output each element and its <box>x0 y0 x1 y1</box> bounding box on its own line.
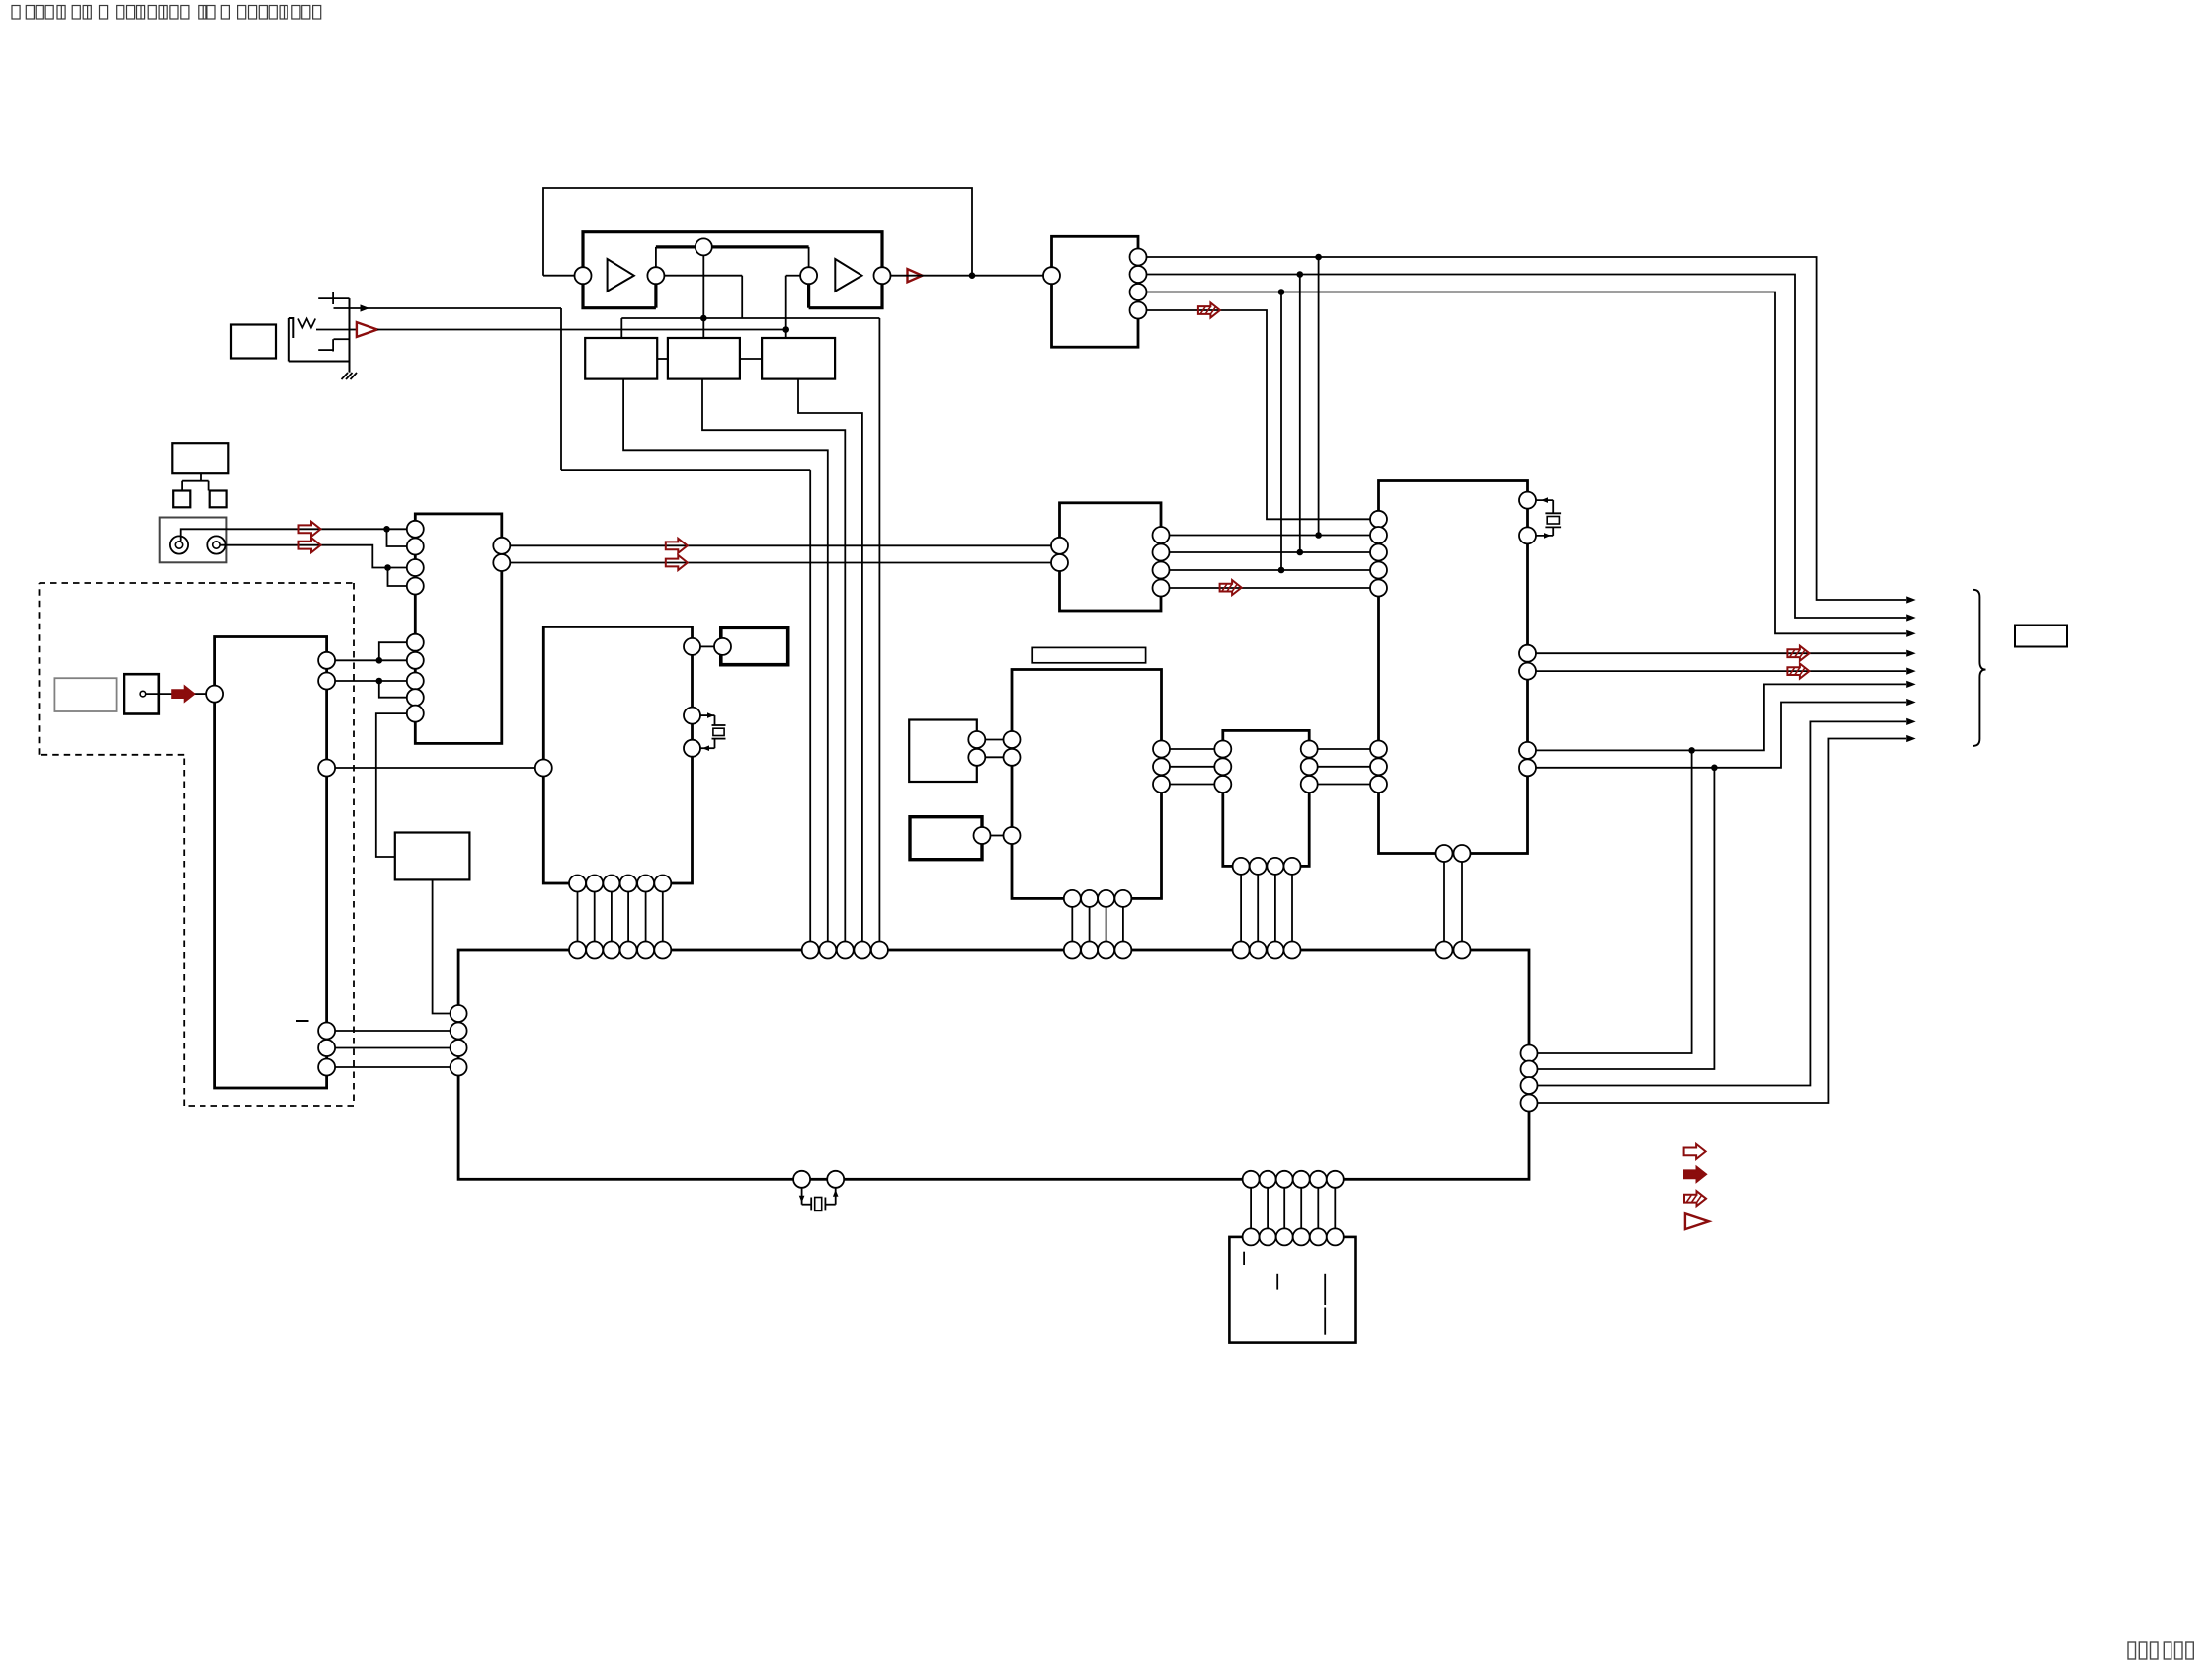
wire: driver to controller 3 <box>1318 784 1370 786</box>
wire: driver bus 4 to main IC <box>1291 875 1293 942</box>
wire: main IC out 4 <box>1538 735 1916 1103</box>
block: display-keys unit <box>1229 1237 1355 1343</box>
wire: headphone audio line B to R-ch amp node <box>377 326 789 333</box>
pins of decoder bottom <box>1064 890 1132 907</box>
label strip (part number) <box>1032 647 1145 662</box>
wire: pickup to RF amp <box>146 693 206 695</box>
wire: center pin to mute box 2 <box>702 255 704 338</box>
wire: display bus 4 <box>1300 1188 1302 1229</box>
pins of controller left upper <box>1370 511 1387 597</box>
wire: DAI out 2 <box>1147 271 1916 621</box>
wire: DSP-RAM link <box>700 645 714 647</box>
block: decoder - servo DSP <box>1012 670 1162 899</box>
dashed enclosure (CD mechanism) <box>40 583 355 1106</box>
wire: main IC out 3 <box>1538 718 1916 1086</box>
pins of main IC top (DSP side) <box>569 942 671 959</box>
mute box 1 <box>585 338 657 379</box>
wire: line L branch <box>387 529 407 546</box>
amplifier block U-amp (thick outline) <box>583 232 882 308</box>
wire: line R to DIR <box>220 538 407 571</box>
wire: servo to main IC 2 <box>335 1047 451 1049</box>
mute box 3 <box>762 338 835 379</box>
wire: decoder to driver 2 <box>1170 766 1214 768</box>
wire: A1 out to mute network <box>664 276 742 318</box>
pins of driver right <box>1301 741 1318 793</box>
wire: display bus 1 <box>1250 1188 1252 1229</box>
block: remote sensor <box>172 443 228 473</box>
wire: DAI tap 2 down <box>1297 275 1304 556</box>
op-amp A2 (right buffer) <box>835 259 861 292</box>
sensor element left <box>173 491 190 508</box>
pins of decoder right <box>1153 741 1170 793</box>
block: digital input receiver (DIR) <box>415 514 502 744</box>
wire: decoder to driver 1 <box>1170 748 1214 750</box>
output label box <box>2015 626 2067 647</box>
wire: M1 to controller 1 <box>1170 535 1371 537</box>
block: pickup label (grey) <box>54 678 116 711</box>
pins of S1 <box>968 731 985 766</box>
wire: display bus 2 <box>1267 1188 1269 1229</box>
wire: servo to main IC 1 <box>335 1030 451 1032</box>
wire: decoder bus 2 to main IC <box>1089 907 1091 942</box>
minus mark <box>296 1020 309 1022</box>
crystal X1 (DSP clock) <box>700 712 726 751</box>
legend: hatched arrow <box>1684 1191 1706 1206</box>
pins of DSP <box>535 638 700 892</box>
wire: servo to main IC 3 <box>335 1066 451 1068</box>
wire: DAI out 1 <box>1147 254 1916 604</box>
pins of driver left <box>1214 741 1231 793</box>
crystal X2 (controller clock) <box>1536 497 1561 538</box>
pins of amplifier block <box>575 238 891 284</box>
wire: controller out 3 <box>1536 681 1916 754</box>
wire: driver bus 1 to main IC <box>1240 875 1242 942</box>
block: peripheral S1 <box>909 720 977 783</box>
pins of main IC top (driver side) <box>1233 942 1301 959</box>
legend: filled arrow <box>1684 1167 1706 1182</box>
headphone label box <box>231 325 276 359</box>
legend: open arrow <box>1684 1144 1706 1159</box>
wire: S1 link a <box>985 739 1003 741</box>
block: line input jacks <box>160 518 227 563</box>
wire: box2 to main IC <box>702 379 845 942</box>
wire: driver to controller 1 <box>1318 748 1370 750</box>
block: peripheral S2 (bold) <box>910 817 982 860</box>
legend: open triangle <box>1685 1213 1709 1229</box>
wire: main IC out 2 <box>1538 768 1715 1069</box>
pin of RAM <box>714 638 731 655</box>
pins of DIR right <box>493 538 510 571</box>
buffer (amp output) <box>908 269 923 282</box>
brace (output connector) <box>1973 590 1986 746</box>
pins of controller right <box>1519 492 1536 777</box>
block: buffer box B2 <box>395 833 470 880</box>
headphone jack J1 (with switch contacts) <box>289 292 357 373</box>
wire: controller out 2 (to outputs) <box>1536 664 1916 679</box>
mute box 2 <box>668 338 740 379</box>
pins of controller bottom <box>1436 845 1471 862</box>
wire: box2-box3 link <box>740 358 762 360</box>
wire: S2 link <box>991 835 1004 837</box>
wire: decoder bus 4 to main IC <box>1122 907 1124 942</box>
wire: controller out 1 (to outputs) <box>1536 646 1916 661</box>
ground <box>342 373 358 379</box>
footer page text (missing-glyph boxes) <box>2128 1642 2193 1659</box>
wire: DIR pin9 loop <box>376 713 407 857</box>
wire: sensor leads <box>182 473 209 490</box>
wire: DSP data 3 to main IC <box>611 892 613 942</box>
wire: headphone top contact to SW input (down at x568) <box>334 304 811 941</box>
block: RAM (bold) <box>721 627 788 664</box>
wire: display bus 5 <box>1317 1188 1319 1229</box>
wire: DAI out 4 to system controller <box>1147 303 1371 520</box>
wire: decoder to driver 3 <box>1170 784 1214 786</box>
block: driver N <box>1223 730 1309 866</box>
wire: servo to DIR a <box>335 642 407 663</box>
pins of main IC left <box>451 1005 467 1076</box>
arrow (filled): RF signal <box>172 687 194 702</box>
block: pickup head <box>124 674 159 713</box>
sensor element right <box>210 491 227 508</box>
pins of display unit <box>1243 1228 1344 1245</box>
block: system controller <box>1379 481 1528 854</box>
wire: DIR to decoder L <box>510 539 1051 553</box>
wire: decoder bus 1 to main IC <box>1071 907 1073 942</box>
wire: DSP data 2 to main IC <box>594 892 596 942</box>
wire: M1 to controller 4 <box>1170 580 1371 595</box>
wire: line R branch <box>388 568 407 587</box>
block: digital audio interface (DAI) <box>1052 236 1139 347</box>
wire: controller to main IC a <box>1443 862 1445 942</box>
wire: driver bus 2 to main IC <box>1257 875 1259 942</box>
wire: servo to DIR b <box>335 678 407 698</box>
wire: S1 link b <box>985 756 1003 758</box>
jack R (RCA) <box>207 536 225 553</box>
block: main system IC <box>458 950 1529 1179</box>
wire: box1-box2 link <box>657 358 668 360</box>
pins of DIR left <box>407 521 424 722</box>
wire: driver bus 3 to main IC <box>1274 875 1276 942</box>
wire: DIR to decoder R <box>510 555 1051 570</box>
jack L (RCA) <box>170 536 188 553</box>
pins of DAI <box>1043 249 1147 319</box>
wire: driver to controller 2 <box>1318 766 1370 768</box>
wire: B2 to main IC <box>433 879 451 1013</box>
wire: controller to main IC b <box>1461 862 1463 942</box>
wire: servo to DSP (long) <box>335 767 535 769</box>
wire: display bus 3 <box>1283 1188 1285 1229</box>
pins of main IC bottom <box>793 1171 1344 1188</box>
wire: display bus 6 <box>1334 1188 1336 1229</box>
wire: R amp input node <box>786 276 800 338</box>
pins of main IC top (mute side) <box>802 942 888 959</box>
wire: box1 to main IC <box>623 379 828 942</box>
crystal X3 (main clock) <box>799 1188 839 1211</box>
pins of driver bottom <box>1233 858 1301 875</box>
wire: DSP data 4 to main IC <box>627 892 629 942</box>
wire: DAI out 3 <box>1147 289 1916 637</box>
op-amp A1 (left buffer) <box>608 259 634 292</box>
wire: DSP data 6 to main IC <box>662 892 664 942</box>
pin of S2 <box>974 827 991 844</box>
pins of main IC top (controller side) <box>1436 942 1471 959</box>
wire: box3 to main IC <box>798 379 862 942</box>
block: DSP - digital filter <box>543 626 692 883</box>
wire: DAI tap 3 down <box>1278 292 1285 574</box>
wire: mute bus (line A) <box>621 315 879 942</box>
wire: M1 to controller 3 <box>1170 569 1371 571</box>
title text (missing-glyph boxes) <box>12 6 321 20</box>
feedback loop wire <box>543 188 975 279</box>
pins of main IC right <box>1521 1045 1538 1112</box>
wire: DSP data 5 to main IC <box>645 892 647 942</box>
pins of RF amp <box>206 652 335 1076</box>
display marks <box>1244 1252 1325 1335</box>
buffer (headphone line driver) <box>357 322 377 337</box>
pins of M1 left <box>1051 538 1068 571</box>
wire: M1 to controller 2 <box>1170 551 1371 553</box>
wire: line L to DIR <box>181 522 407 542</box>
wire: controller out 4 <box>1536 699 1916 771</box>
wire: DAI tap 1 down <box>1315 257 1322 539</box>
wire: decoder bus 3 to main IC <box>1106 907 1107 942</box>
pins of M1 right <box>1153 527 1170 597</box>
node: pickup output <box>140 691 146 697</box>
pins of main IC top (decoder side) <box>1064 942 1132 959</box>
wire: DSP data 1 to main IC <box>577 892 579 942</box>
wire: amp output to DAI block <box>891 275 1044 277</box>
wire: main IC out 1 <box>1538 750 1692 1053</box>
block: RF amp - servo (tall) <box>215 637 327 1089</box>
pins of controller left lower <box>1370 741 1387 793</box>
pins of decoder left <box>1004 731 1021 844</box>
block: audio interface M1 <box>1060 503 1162 611</box>
